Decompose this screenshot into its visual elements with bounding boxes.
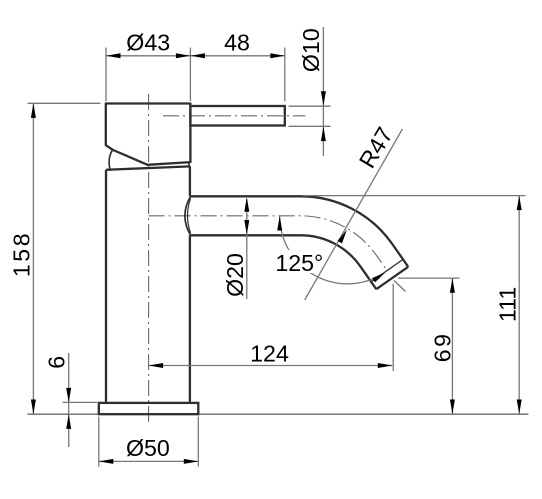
body left edge xyxy=(105,170,107,403)
centerline handle axis xyxy=(163,115,306,117)
arrow 158 down xyxy=(31,400,36,415)
dimension 158 xyxy=(32,103,34,414)
centerline body axis xyxy=(148,94,150,425)
arrow 111 down xyxy=(517,400,522,415)
arrow R47 xyxy=(338,230,347,244)
head collar arc xyxy=(109,150,112,170)
angle dimension 125 arc xyxy=(280,216,386,284)
svg-text:Ø43: Ø43 xyxy=(126,29,170,55)
mounting surface line xyxy=(27,413,528,415)
dimension 6 xyxy=(68,353,70,447)
svg-text:6: 6 xyxy=(43,356,69,369)
svg-text:111: 111 xyxy=(495,287,521,322)
arrow 158 up xyxy=(31,103,36,118)
extension line left D43 xyxy=(105,48,107,102)
spout root seam outer xyxy=(185,196,191,235)
aerator line xyxy=(371,259,403,281)
svg-text:125°: 125° xyxy=(275,250,323,276)
spout tip axis extension xyxy=(394,281,406,292)
arrow 69 down xyxy=(450,400,455,415)
extension line D10 top xyxy=(289,105,331,107)
arrow D43 right xyxy=(176,53,191,58)
collar right connector xyxy=(188,162,190,168)
svg-text:158: 158 xyxy=(9,231,35,277)
extension line mid D43/48 xyxy=(189,48,191,102)
dimension D50 xyxy=(99,460,199,462)
arrow D43 left xyxy=(106,53,121,58)
extension line 69 top xyxy=(398,277,460,279)
dimension 69 xyxy=(451,278,453,414)
arrow D10 up xyxy=(321,127,326,142)
svg-text:69: 69 xyxy=(429,332,455,363)
dimension D20 xyxy=(246,199,248,299)
extension line right 48 xyxy=(284,48,286,102)
arrow 124 left xyxy=(149,363,164,368)
label 125 degrees xyxy=(276,250,323,273)
dimension D10 xyxy=(322,27,324,156)
arrow D20 up xyxy=(244,197,249,212)
radius R47 leader line xyxy=(305,129,403,300)
svg-text:Ø10: Ø10 xyxy=(298,28,324,72)
body top edge xyxy=(106,166,190,169)
dimension line D43 and 48 xyxy=(106,55,285,57)
extension line D50 left xyxy=(98,417,100,467)
extension line 124 right xyxy=(392,284,394,372)
spout end face xyxy=(376,267,408,289)
extension line 158 top xyxy=(28,102,101,104)
arrow 125 arc upper xyxy=(277,216,282,231)
arrow 124 right xyxy=(378,363,393,368)
body right edge lower xyxy=(189,235,191,403)
arrow 6 down xyxy=(66,388,71,403)
body right edge upper xyxy=(189,166,191,196)
arrow 48 right xyxy=(270,53,285,58)
spout top edge xyxy=(190,196,408,266)
handle lever xyxy=(190,106,284,126)
arrow 48 left xyxy=(190,53,205,58)
svg-text:124: 124 xyxy=(250,340,289,366)
arrow 6 up xyxy=(66,414,71,429)
extension line 111 top xyxy=(303,195,526,197)
arrow D20 down xyxy=(244,220,249,235)
base plate xyxy=(99,403,199,414)
extension line D50 right xyxy=(197,417,199,467)
arrow 69 up xyxy=(450,278,455,293)
dimension 111 xyxy=(518,196,520,414)
svg-text:48: 48 xyxy=(224,29,250,55)
centerline spout axis xyxy=(149,216,388,271)
arrow 111 up xyxy=(517,196,522,211)
arrow D50 right xyxy=(184,459,199,464)
svg-text:Ø20: Ø20 xyxy=(222,253,248,297)
extension line D10 bottom xyxy=(289,125,331,127)
arrow D10 down xyxy=(321,91,326,106)
spout bottom edge xyxy=(190,235,376,289)
faucet head outline xyxy=(106,104,191,165)
arrow 125 arc lower xyxy=(372,272,385,282)
extension line 6 xyxy=(63,401,98,403)
svg-text:Ø50: Ø50 xyxy=(126,435,170,461)
dimension 124 xyxy=(149,365,393,367)
arrow D50 left xyxy=(99,459,114,464)
spout root seam inner xyxy=(188,198,191,233)
